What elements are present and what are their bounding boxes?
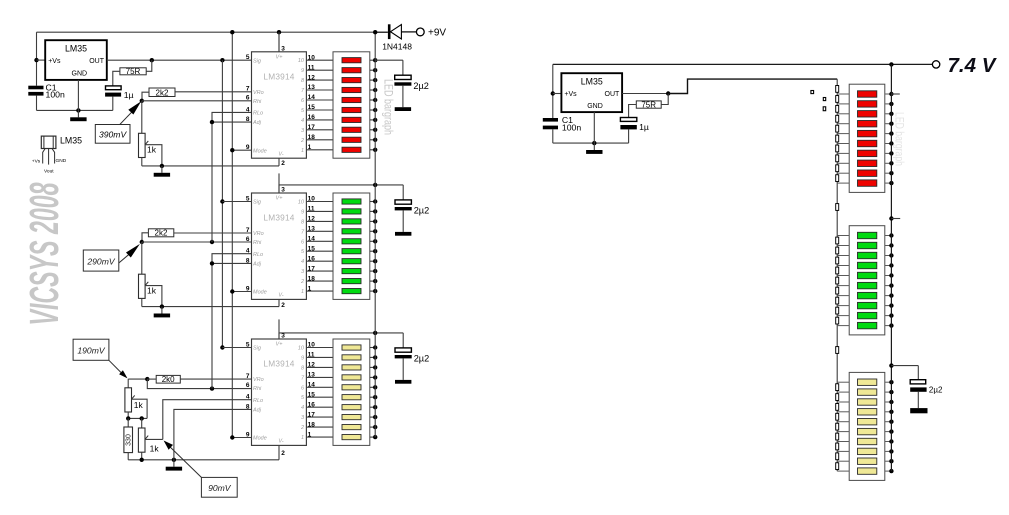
wire LED row pin 11 [306, 356, 333, 358]
junction right rail [889, 92, 893, 96]
svg-text:11: 11 [308, 352, 315, 359]
wire LED row pin 14 [306, 99, 333, 101]
svg-text:10: 10 [298, 58, 305, 64]
junction rail [373, 138, 377, 142]
wire LED right [885, 441, 892, 443]
junction right rail [889, 263, 893, 267]
svg-text:2: 2 [281, 160, 285, 167]
wire tap yellow7 [837, 441, 849, 443]
wire LED row pin 17 [306, 270, 333, 272]
wire tap red8 [837, 162, 849, 164]
svg-text:4: 4 [301, 259, 304, 265]
wire LED row pin 17 [306, 416, 333, 418]
wire LED row pin 18 [306, 280, 333, 282]
wire ground bottom right [553, 142, 629, 144]
wire Adj chip3 [174, 409, 252, 459]
svg-text:15: 15 [308, 104, 316, 111]
svg-text:2: 2 [300, 138, 304, 144]
junction ground right [592, 141, 596, 145]
svg-text:13: 13 [308, 84, 316, 91]
svg-text:V+: V+ [276, 196, 284, 202]
svg-text:LM35: LM35 [60, 136, 82, 146]
svg-text:100n: 100n [562, 123, 581, 133]
svg-text:8: 8 [246, 116, 250, 123]
svg-text:Mode: Mode [253, 148, 267, 154]
svg-text:VRo: VRo [253, 377, 264, 383]
LED segment 6 [342, 107, 361, 112]
LED yellow6 [858, 428, 877, 434]
wire LED anode [370, 376, 375, 378]
wire LED right [885, 421, 892, 423]
junction gnd chip2 [160, 304, 164, 308]
wire ground bottom [37, 109, 113, 111]
svg-text:12: 12 [308, 362, 316, 369]
svg-text:190mV: 190mV [77, 346, 105, 356]
svg-text:6: 6 [246, 236, 250, 243]
wire tap green3 [837, 255, 849, 257]
LED segment 2 [342, 209, 361, 214]
wire right rail [890, 64, 892, 471]
wire Adj chip2 [212, 262, 252, 264]
wire trimmer1 wiper [145, 145, 162, 166]
svg-text:2µ2: 2µ2 [929, 386, 943, 395]
resistor chain R4 [836, 115, 839, 122]
svg-text:6: 6 [246, 95, 250, 102]
wire chip2 V+ wire [279, 185, 403, 193]
svg-text:2k2: 2k2 [155, 229, 168, 238]
LED segment 3 [342, 78, 361, 83]
wire +Vs [37, 59, 46, 61]
wire resistor-chain bus [836, 79, 838, 471]
LED segment 2 [342, 68, 361, 73]
capacitor C1 100n [28, 86, 43, 96]
junction rail [373, 279, 377, 283]
wire 75R right-right leg [661, 94, 668, 105]
LED green2 [858, 242, 877, 248]
junction gnd chip3 [172, 458, 176, 462]
svg-text:4: 4 [301, 405, 304, 411]
svg-text:1: 1 [301, 289, 304, 295]
wire LED row pin 1 [306, 436, 333, 438]
resistor chain R3 [836, 105, 839, 112]
svg-text:LM3914: LM3914 [263, 213, 294, 223]
svg-text:11: 11 [308, 64, 315, 71]
wire LED row pin 14 [306, 240, 333, 242]
wire 2k2b left leg [142, 233, 148, 242]
wire LED right [885, 325, 892, 327]
LED segment 8 [342, 127, 361, 132]
svg-text:Mode: Mode [253, 436, 267, 442]
svg-text:390mV: 390mV [99, 130, 127, 140]
wire 190mV to 2k0 [147, 378, 156, 380]
LED green3 [858, 252, 877, 258]
diode D1 1N4148 [375, 24, 416, 39]
trimmer 1k chip2 [139, 274, 149, 298]
wire LED anode [370, 290, 375, 292]
svg-text:2: 2 [300, 425, 304, 431]
svg-text:90mV: 90mV [208, 483, 232, 493]
LED red8 [858, 160, 877, 166]
resistor chain R11 [836, 204, 839, 211]
junction rail [373, 199, 377, 203]
capacitor 2u2 chip3 [395, 333, 412, 384]
LED red5 [858, 130, 877, 136]
svg-text:8: 8 [246, 257, 250, 264]
svg-text:2µ2: 2µ2 [414, 206, 430, 216]
LED red3 [858, 111, 877, 117]
junction rail [373, 68, 377, 72]
LED yellow10 [858, 468, 877, 474]
svg-text:17: 17 [308, 411, 316, 418]
wire 330 stub up [127, 418, 129, 427]
svg-text:1k: 1k [147, 145, 157, 155]
LED segment 8 [342, 415, 361, 420]
wire LED anode [370, 356, 375, 358]
resistor chain R1 [836, 86, 839, 93]
junction right rail [889, 171, 893, 175]
LED segment 10 [342, 289, 361, 294]
wire 2k0 to pin7 chip3 [180, 378, 251, 380]
wire LED anode [370, 119, 375, 121]
LED segment 5 [342, 385, 361, 390]
wire Sig bus [221, 60, 223, 347]
svg-text:Adj: Adj [252, 262, 262, 268]
LED bargraph green box [849, 226, 885, 335]
svg-text:GND: GND [587, 103, 603, 110]
wire LED anode [370, 109, 375, 111]
wire LED anode [370, 59, 375, 61]
wire LED row pin 14 [306, 386, 333, 388]
LED yellow4 [858, 409, 877, 415]
svg-text:7: 7 [246, 227, 250, 234]
trimmer 1k chip3 [125, 388, 135, 412]
wire LED row pin 13 [306, 376, 333, 378]
wire Mode bus [231, 32, 233, 437]
wire OUT right [622, 93, 668, 95]
wire LED row pin 15 [306, 250, 333, 252]
junction rail [373, 78, 377, 82]
wire tap red10 [837, 182, 849, 184]
wire left supply rail upper [36, 32, 38, 85]
wire tap red3 [837, 113, 849, 115]
wire LED right [885, 235, 892, 237]
wire LED right [885, 265, 892, 267]
svg-text:V-: V- [278, 439, 283, 445]
svg-text:1µ: 1µ [124, 90, 134, 100]
svg-text:LED bargraph: LED bargraph [892, 112, 904, 166]
wire LED supply rail [374, 32, 376, 437]
wire LED row pin 11 [306, 210, 333, 212]
junction rail [373, 249, 377, 253]
svg-text:2: 2 [281, 302, 285, 309]
wire Sig chip2 [222, 201, 251, 203]
junction rail [373, 435, 377, 439]
wire tap red2 [837, 103, 849, 105]
LED green5 [858, 272, 877, 278]
resistor chain R16 [836, 277, 839, 284]
wire tap red1 [837, 93, 849, 95]
junction 330 top [126, 416, 130, 420]
junction stub mid [889, 216, 893, 220]
junction rail [373, 365, 377, 369]
wire chip3 V+ wire [279, 333, 403, 339]
svg-text:1k: 1k [150, 444, 160, 454]
svg-text:15: 15 [308, 391, 316, 398]
wire GND stub [77, 80, 79, 111]
junction rail [373, 58, 377, 62]
junction 1k4 bottom [140, 458, 144, 462]
junction rail [373, 415, 377, 419]
junction 390mV [140, 99, 144, 103]
resistor chain R15 [836, 267, 839, 274]
junction +Vs right [551, 91, 555, 95]
LED segment 6 [342, 249, 361, 254]
junction chainA end [210, 240, 214, 244]
LED yellow9 [858, 458, 877, 464]
wire LED right [885, 295, 892, 297]
resistor chain R10 [836, 175, 839, 182]
wire Adj chip1 [212, 121, 252, 123]
junction right rail [889, 273, 893, 277]
svg-text:V+: V+ [276, 55, 284, 61]
junction cap right [889, 363, 893, 367]
svg-text:14: 14 [308, 382, 316, 389]
wire LED anode [370, 230, 375, 232]
LED segment 9 [342, 425, 361, 430]
wire LED anode [370, 149, 375, 151]
resistor 75R [120, 68, 146, 75]
wire LED right [885, 152, 892, 154]
wire 75R right to OUT [146, 60, 152, 71]
wire tap green2 [837, 245, 849, 247]
svg-text:12: 12 [308, 216, 316, 223]
junction rail [373, 219, 377, 223]
svg-text:7: 7 [246, 86, 250, 93]
wire LED right [885, 460, 892, 462]
resistor chain R28 [836, 443, 839, 450]
wire tap green9 [837, 315, 849, 317]
junction right rail [889, 293, 893, 297]
junction 2k0 tap [145, 377, 149, 381]
svg-text:11: 11 [308, 206, 315, 213]
junction 290mV [140, 240, 144, 244]
ground right LM35 [586, 143, 602, 154]
junction rail [373, 425, 377, 429]
terminal 7.4V [932, 61, 939, 68]
LED green4 [858, 262, 877, 268]
junction right rail [889, 380, 893, 384]
wire Mode chip1 [232, 149, 251, 151]
wire 75R left to 1u [113, 71, 120, 86]
stray pad 2 [823, 98, 825, 101]
svg-text:10: 10 [298, 346, 305, 352]
wire LED anode [370, 260, 375, 262]
LED segment 6 [342, 395, 361, 400]
junction Mode1 [230, 148, 234, 152]
svg-text:LM35: LM35 [65, 44, 87, 54]
wire LED row pin 18 [306, 426, 333, 428]
junction right rail [889, 313, 893, 317]
wire tap green8 [837, 305, 849, 307]
svg-text:+9V: +9V [428, 28, 446, 39]
LED segment 1 [342, 58, 361, 63]
svg-text:+Vs: +Vs [48, 58, 61, 65]
LED green8 [858, 302, 877, 308]
junction Adj1 [210, 120, 214, 124]
wire LED anode [370, 426, 375, 428]
LED red1 [858, 91, 877, 97]
resistor chain R21 [836, 347, 839, 354]
LED green9 [858, 312, 877, 318]
junction rail [373, 395, 377, 399]
wire chip2 V- stub [278, 299, 280, 306]
wire 330 bottom [127, 453, 129, 460]
wire LED right [885, 93, 892, 95]
wire LED anode [370, 210, 375, 212]
resistor 2k0 [156, 375, 180, 383]
svg-text:LED bargraph: LED bargraph [381, 79, 393, 135]
LED yellow3 [858, 399, 877, 405]
wire left rail lower [36, 96, 38, 111]
junction right rail [889, 181, 893, 185]
wire LED right [885, 431, 892, 433]
svg-text:V+: V+ [276, 342, 284, 348]
wire LED right [885, 255, 892, 257]
svg-text:5: 5 [246, 54, 250, 61]
svg-text:+Vs: +Vs [32, 159, 41, 165]
svg-text:4: 4 [246, 248, 250, 255]
resistor chain R12 [836, 237, 839, 244]
wire LED row pin 11 [306, 69, 333, 71]
LED segment 10 [342, 147, 361, 152]
wire LED anode [370, 129, 375, 131]
capacitor 1u right [620, 118, 636, 130]
junction OUT-75R [150, 58, 154, 62]
wire tap yellow6 [837, 431, 849, 433]
LED yellow8 [858, 448, 877, 454]
IC LM3914 y193 [252, 193, 307, 299]
wire LED anode [370, 201, 375, 203]
resistor chain R14 [836, 257, 839, 264]
svg-text:9: 9 [301, 209, 304, 215]
transistor package TO-92 LM35 [41, 136, 56, 165]
wire trimmer3 wiper [132, 399, 148, 418]
wire LED anode [370, 366, 375, 368]
resistor chain R23 [836, 394, 839, 401]
capacitor 2u2 chip1 [394, 60, 411, 111]
svg-text:10: 10 [308, 54, 316, 61]
junction gnd chip1 [160, 164, 164, 168]
svg-text:10: 10 [298, 200, 305, 206]
wire LED right [885, 450, 892, 452]
ground [70, 110, 86, 121]
LED red7 [858, 150, 877, 156]
LED segment 3 [342, 219, 361, 224]
wire LED row pin 12 [306, 79, 333, 81]
LED segment 7 [342, 259, 361, 264]
svg-text:16: 16 [308, 255, 316, 262]
svg-text:Mode: Mode [253, 290, 267, 296]
resistor chain R9 [836, 165, 839, 172]
svg-text:75R: 75R [641, 100, 656, 109]
wire tap green10 [837, 325, 849, 327]
wire Mode chip3 [232, 437, 251, 439]
resistor chain R24 [836, 404, 839, 411]
wire chip3 V- stub [278, 445, 280, 459]
junction Mode bus top [230, 30, 234, 34]
wire tap yellow2 [837, 391, 849, 393]
wire RHi chip1 [142, 100, 252, 102]
svg-text:GND: GND [72, 71, 88, 78]
wire LED row pin 16 [306, 119, 333, 121]
wire 390mV to trimmer [141, 101, 143, 134]
svg-text:16: 16 [308, 114, 316, 121]
junction right rail [889, 303, 893, 307]
wire LED anode [370, 69, 375, 71]
svg-text:10: 10 [308, 342, 316, 349]
resistor 75R right [636, 101, 661, 108]
LED bargraph red box [849, 84, 885, 192]
wire trimmer3 bottom [127, 412, 129, 418]
junction right rail [889, 439, 893, 443]
wire cap right feed [891, 365, 918, 367]
wire tap red6 [837, 143, 849, 145]
wire cap1 feed [375, 59, 403, 61]
svg-text:LM35: LM35 [581, 77, 603, 87]
wire LED anode [370, 89, 375, 91]
junction rail [373, 98, 377, 102]
capacitor 2u2 right [910, 366, 927, 414]
LED segment 4 [342, 87, 361, 92]
wire LED right [885, 143, 892, 145]
svg-text:1: 1 [308, 144, 312, 151]
LED segment 8 [342, 269, 361, 274]
junction right rail [889, 420, 893, 424]
LED yellow1 [858, 379, 877, 385]
svg-text:18: 18 [308, 275, 316, 282]
junction rail [373, 385, 377, 389]
LED bargraph module y339 [333, 339, 370, 445]
resistor chain R30 [836, 463, 839, 470]
LED segment 1 [342, 199, 361, 204]
junction right rail [889, 233, 893, 237]
wire V- net chip2 [142, 306, 279, 308]
svg-text:14: 14 [308, 236, 316, 243]
wire RLo chip3 [163, 400, 252, 440]
wire LED anode [370, 347, 375, 349]
wire tap red5 [837, 133, 849, 135]
LED segment 7 [342, 117, 361, 122]
svg-text:1: 1 [301, 148, 304, 154]
wire tap yellow1 [837, 381, 849, 383]
wire RHi chip3 leg [147, 379, 251, 389]
junction right rail [889, 410, 893, 414]
IC LM35 right box [561, 73, 622, 112]
LED green6 [858, 282, 877, 288]
wire 2k2b to pin7 chip2 [174, 232, 252, 234]
svg-text:8: 8 [246, 403, 250, 410]
svg-text:RLo: RLo [253, 252, 263, 258]
svg-text:1N4148: 1N4148 [382, 42, 412, 52]
resistor chain R20 [836, 317, 839, 324]
svg-text:1µ: 1µ [639, 122, 649, 132]
svg-text:GND: GND [56, 158, 67, 164]
LED segment 4 [342, 375, 361, 380]
svg-text:VRo: VRo [253, 90, 264, 96]
resistor 2k2 upper [149, 88, 175, 97]
wire LED row pin 16 [306, 260, 333, 262]
svg-text:4: 4 [301, 118, 304, 124]
